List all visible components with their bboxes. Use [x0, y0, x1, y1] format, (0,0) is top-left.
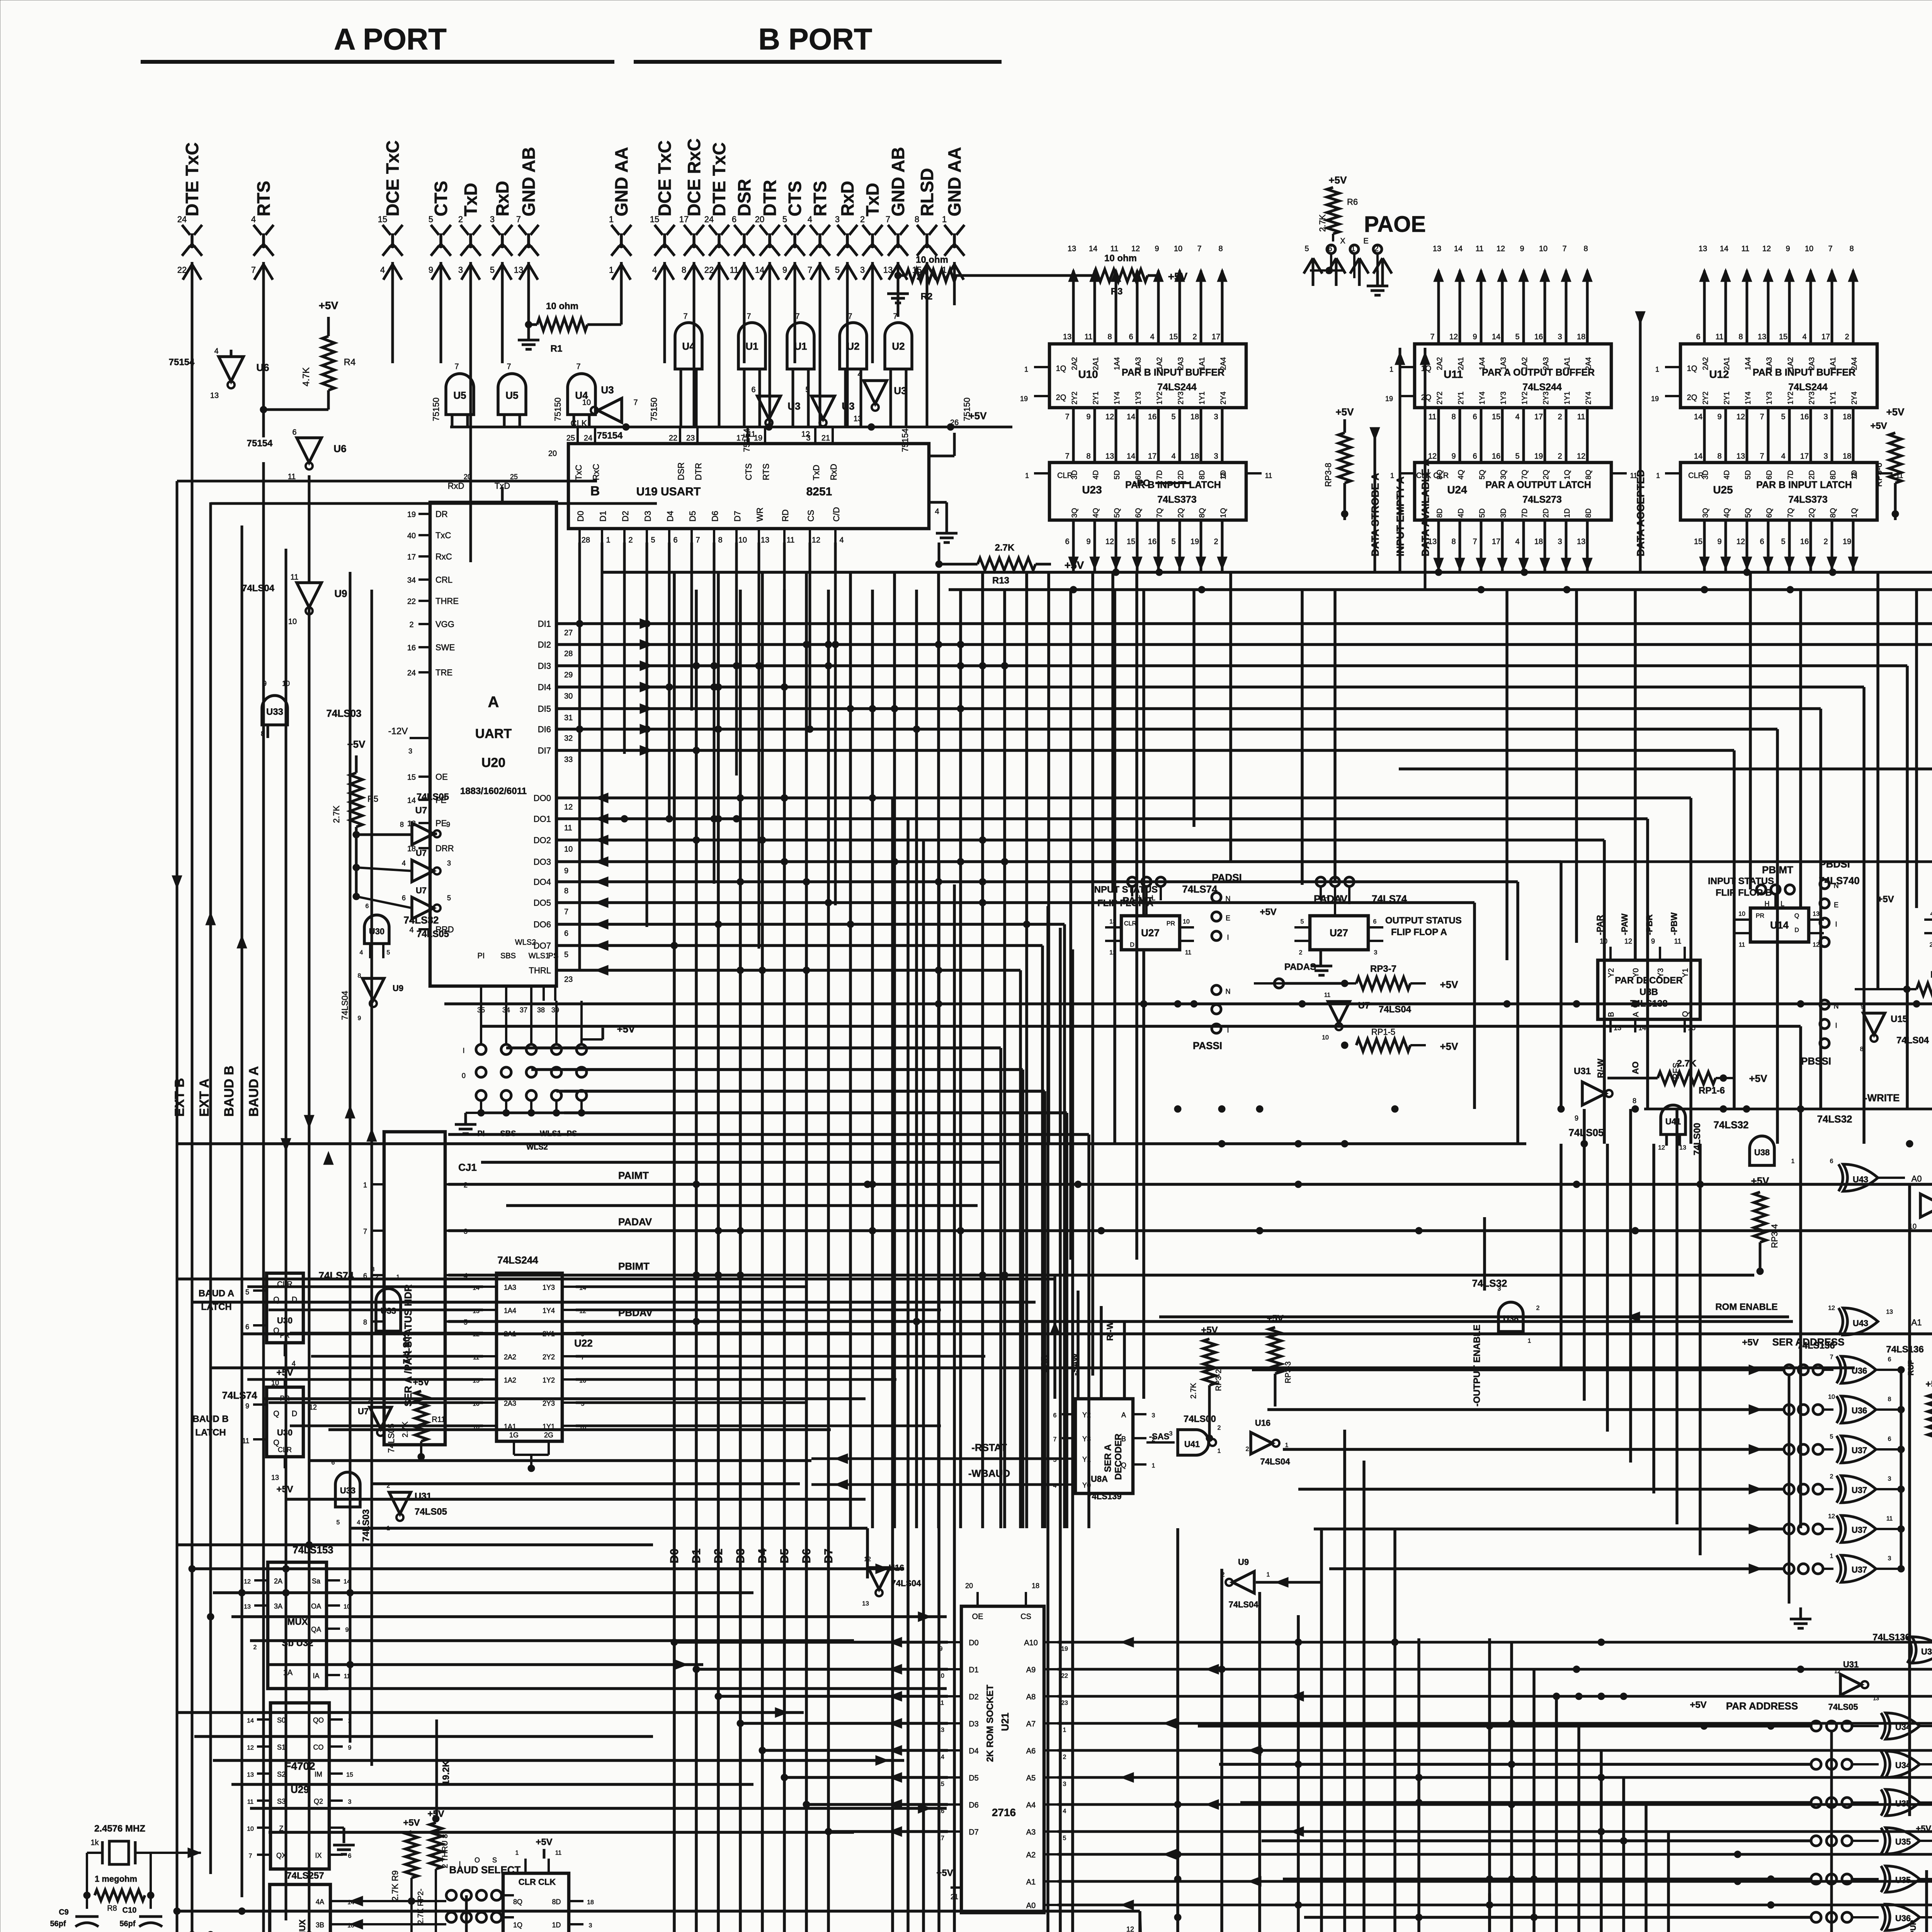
svg-text:CTS: CTS: [744, 463, 753, 480]
svg-text:13: 13: [1433, 245, 1441, 253]
svg-text:13: 13: [1758, 333, 1766, 341]
gate U2 driver: [840, 312, 867, 427]
svg-text:2.7K: 2.7K: [1677, 1058, 1697, 1069]
svg-text:H: H: [1765, 900, 1770, 908]
gate U36 74LS136 SER row1: [1784, 1394, 1905, 1423]
jumper/net PAOE: [1310, 174, 1426, 295]
inverter U6b 75154: [247, 428, 347, 481]
svg-text:U19 USART: U19 USART: [636, 485, 701, 498]
svg-text:+5V: +5V: [1886, 406, 1905, 418]
junction: [913, 1318, 920, 1325]
junction: [869, 1181, 876, 1188]
wire ser in: [1329, 1564, 1784, 1574]
wire arrow: [304, 1115, 314, 1128]
junction: [715, 726, 722, 733]
svg-text:U30: U30: [277, 1428, 293, 1437]
svg-text:11: 11: [344, 1673, 350, 1680]
resistor RP2 2.7K: [417, 1809, 449, 1932]
svg-text:8: 8: [1086, 452, 1090, 461]
svg-text:10: 10: [1183, 918, 1190, 925]
svg-text:RxD: RxD: [829, 464, 838, 480]
svg-text:74LS00: 74LS00: [1184, 1414, 1216, 1424]
connector pin CTS: [782, 181, 805, 286]
svg-text:1Y4: 1Y4: [1744, 391, 1752, 405]
junction: [1478, 586, 1485, 593]
svg-text:74LS05: 74LS05: [1828, 1702, 1858, 1712]
svg-text:A: A: [1632, 1012, 1640, 1017]
wire data row 1: [556, 639, 1932, 1144]
svg-text:-PBR: -PBR: [1645, 914, 1654, 935]
svg-text:4: 4: [292, 1360, 296, 1367]
svg-text:14: 14: [407, 796, 416, 805]
svg-text:5: 5: [490, 265, 495, 275]
net label PADAV: [618, 1216, 652, 1228]
inverter U21/U31 74LS05 (-WRITE): [1568, 1066, 1636, 1138]
svg-text:E: E: [1226, 914, 1230, 922]
svg-text:+5V: +5V: [1260, 907, 1276, 917]
wire dec vert: [1077, 1291, 1080, 1399]
svg-text:THRE: THRE: [435, 596, 459, 606]
svg-text:RTS: RTS: [810, 181, 830, 216]
gate U34top 74LS136: [1901, 1627, 1932, 1663]
junction: [1598, 1693, 1605, 1700]
svg-text:1883/1602/6011: 1883/1602/6011: [460, 786, 527, 796]
svg-text:U7: U7: [358, 1406, 369, 1416]
junction: [957, 705, 964, 712]
svg-text:3Q: 3Q: [1500, 470, 1508, 480]
svg-text:15: 15: [937, 1781, 944, 1787]
svg-text:BAUD B: BAUD B: [222, 1066, 236, 1117]
wire: [191, 383, 194, 1932]
connector stub: [1327, 245, 1345, 286]
svg-text:LATCH: LATCH: [195, 1427, 226, 1438]
wire: [391, 286, 394, 363]
svg-text:RUP: RUP: [1907, 1359, 1915, 1376]
svg-text:2A2: 2A2: [504, 1353, 516, 1361]
svg-text:11: 11: [1111, 245, 1119, 253]
svg-text:16: 16: [1800, 537, 1809, 546]
svg-text:6: 6: [1888, 1356, 1891, 1363]
svg-text:CS: CS: [1020, 1612, 1031, 1621]
svg-text:GND AA: GND AA: [611, 147, 631, 216]
svg-text:8: 8: [682, 265, 686, 275]
junction: [693, 662, 700, 669]
svg-text:8: 8: [1849, 245, 1854, 253]
svg-text:5: 5: [337, 1519, 340, 1526]
svg-text:+5V: +5V: [1201, 1325, 1218, 1335]
wire vert: [1320, 1528, 1323, 1932]
net PADAS: [1274, 962, 1345, 988]
svg-text:4: 4: [1515, 537, 1519, 546]
svg-text:4: 4: [409, 926, 413, 934]
svg-text:14: 14: [1694, 452, 1702, 461]
svg-text:CRL: CRL: [435, 575, 452, 585]
wire mid row 1: [448, 1229, 1932, 1232]
wire lowleft row 10: [231, 1783, 753, 1786]
svg-text:4: 4: [1150, 333, 1154, 341]
wire SER col: [1789, 1370, 1901, 1628]
svg-text:7: 7: [848, 312, 852, 321]
svg-text:13: 13: [1577, 537, 1585, 546]
svg-text:BAUD B: BAUD B: [192, 1414, 228, 1424]
wire vert feeder: [1575, 590, 1578, 943]
junction: [781, 794, 788, 801]
svg-text:5: 5: [1515, 333, 1519, 341]
svg-text:9: 9: [348, 1745, 352, 1751]
svg-text:1Q: 1Q: [1056, 364, 1066, 373]
svg-text:15: 15: [1169, 333, 1178, 341]
svg-text:24: 24: [704, 214, 714, 224]
svg-text:D0: D0: [668, 1549, 681, 1563]
svg-text:1: 1: [1390, 472, 1394, 480]
svg-text:ROM ENABLE: ROM ENABLE: [1715, 1302, 1777, 1312]
wire mid row 13: [328, 1428, 831, 1431]
junction: [1174, 1876, 1181, 1883]
svg-text:RxD: RxD: [492, 181, 512, 216]
svg-text:S3: S3: [277, 1798, 286, 1805]
junction: [671, 942, 678, 949]
wire ddr up: [1622, 1777, 1625, 1932]
junction: [1797, 1000, 1804, 1007]
svg-text:DO7: DO7: [534, 941, 551, 951]
junction: [238, 1908, 245, 1915]
svg-text:11: 11: [1742, 245, 1750, 253]
wire: [819, 286, 821, 427]
connector pin GND AA: [609, 147, 631, 286]
svg-text:6: 6: [1830, 1158, 1833, 1165]
wire vert: [1220, 1569, 1223, 1932]
svg-text:10: 10: [247, 1826, 254, 1832]
svg-text:7: 7: [564, 908, 568, 916]
svg-text:1A1: 1A1: [1829, 357, 1837, 370]
svg-text:10: 10: [582, 398, 591, 407]
svg-text:U37: U37: [1852, 1446, 1867, 1455]
junction: [1218, 1140, 1225, 1147]
svg-text:U2: U2: [847, 340, 859, 352]
wire vert: [1258, 1592, 1261, 1932]
wire u45 col: [1071, 949, 1074, 1932]
svg-text:2: 2: [1823, 537, 1828, 546]
junction: [1341, 1140, 1348, 1147]
svg-text:SER A: SER A: [1103, 1444, 1113, 1472]
wire ROM D conn: [715, 1691, 948, 1701]
svg-text:C/D: C/D: [832, 507, 841, 522]
wire usart col: [646, 543, 648, 927]
svg-text:1 megohm: 1 megohm: [95, 1874, 137, 1884]
svg-text:-WRITE: -WRITE: [1864, 1092, 1900, 1104]
svg-text:U7: U7: [416, 886, 427, 895]
svg-text:1: 1: [1128, 1902, 1132, 1910]
resistor RP3-6 2.7K: [1870, 406, 1905, 520]
junction: [1112, 569, 1119, 576]
svg-text:14: 14: [344, 1578, 350, 1585]
junction: [979, 837, 986, 844]
svg-text:DSR: DSR: [676, 463, 686, 480]
svg-text:5: 5: [1515, 452, 1519, 461]
wire ROM D conn: [759, 1745, 948, 1755]
svg-text:19: 19: [1843, 537, 1851, 546]
wire u45 col: [1046, 906, 1049, 1932]
svg-text:CO: CO: [313, 1743, 324, 1751]
svg-text:A0: A0: [1912, 1174, 1922, 1184]
svg-text:1A3: 1A3: [1134, 357, 1143, 370]
wire col extra: [1113, 590, 1116, 1144]
svg-text:11: 11: [1739, 942, 1745, 948]
svg-text:I: I: [1835, 920, 1837, 928]
wire fan row 5: [448, 1134, 1089, 1528]
svg-text:74LS04: 74LS04: [891, 1578, 921, 1588]
svg-text:2: 2: [253, 1644, 257, 1651]
svg-text:N: N: [1226, 988, 1231, 995]
svg-text:5Q: 5Q: [1478, 470, 1486, 480]
svg-text:U1: U1: [794, 340, 807, 352]
svg-text:U16: U16: [1255, 1418, 1270, 1428]
svg-text:-SAS: -SAS: [1149, 1432, 1170, 1441]
wire usart col: [578, 543, 581, 970]
svg-text:D1: D1: [690, 1549, 703, 1563]
svg-text:A6: A6: [1026, 1747, 1036, 1755]
svg-text:14: 14: [937, 1754, 944, 1760]
svg-text:13: 13: [210, 391, 219, 400]
svg-text:CLR: CLR: [1124, 920, 1136, 927]
pin number: [1128, 1902, 1132, 1910]
svg-text:GND AB: GND AB: [888, 147, 908, 216]
svg-text:1: 1: [396, 1274, 400, 1281]
junction: [825, 662, 832, 669]
IC U17 BAUD RATE CODE MUX 74LS257: [244, 1871, 371, 1932]
svg-text:6: 6: [363, 1272, 367, 1280]
svg-text:11: 11: [1185, 949, 1192, 956]
svg-text:U36: U36: [1852, 1366, 1867, 1376]
svg-text:2A: 2A: [274, 1577, 282, 1585]
wire ROM D conn: [781, 1772, 948, 1782]
junction: [1734, 1878, 1741, 1885]
svg-text:4: 4: [1063, 1808, 1066, 1815]
wire ser in: [1267, 1405, 1784, 1415]
connector pin DSR: [730, 179, 754, 286]
svg-text:Y2: Y2: [1607, 968, 1616, 978]
junction: [759, 967, 766, 974]
svg-text:74LS244: 74LS244: [1788, 382, 1828, 393]
IC U18 BAUD RATE LATCH 74LS273: [502, 1837, 594, 1932]
svg-text:14: 14: [1454, 245, 1463, 253]
svg-text:U6: U6: [256, 362, 269, 373]
gate U5 75150: [498, 362, 526, 427]
svg-text:13: 13: [1873, 1695, 1879, 1701]
svg-text:33: 33: [564, 755, 573, 764]
wire col extra: [1069, 590, 1072, 1260]
svg-text:D3: D3: [734, 1549, 747, 1563]
svg-text:4: 4: [839, 536, 844, 544]
svg-text:2A4: 2A4: [1850, 357, 1859, 370]
svg-text:1Y3: 1Y3: [1765, 391, 1774, 405]
svg-text:13: 13: [1068, 245, 1076, 253]
svg-text:8D: 8D: [1829, 470, 1837, 480]
svg-text:+5V: +5V: [1916, 1824, 1931, 1833]
svg-text:1: 1: [1267, 1571, 1270, 1578]
svg-text:U27: U27: [1330, 927, 1348, 939]
svg-text:A5: A5: [1026, 1774, 1036, 1782]
svg-text:2A1: 2A1: [1723, 357, 1731, 370]
75150 label: [649, 398, 972, 421]
svg-text:RP3-6: RP3-6: [1874, 463, 1884, 487]
junction: [1174, 1000, 1181, 1007]
connector stub: [1350, 245, 1369, 286]
net label PBIMT: [618, 1260, 650, 1272]
svg-text:PUP: PUP: [1909, 1920, 1918, 1932]
junction: [803, 641, 810, 648]
svg-text:8251: 8251: [806, 485, 832, 498]
junction: [1573, 1000, 1580, 1007]
svg-text:2Y3: 2Y3: [1177, 391, 1185, 405]
svg-text:U3: U3: [601, 384, 614, 396]
wire lowleft row 8: [194, 1735, 653, 1738]
junction: [957, 641, 964, 648]
svg-text:5: 5: [1301, 918, 1304, 925]
svg-text:8: 8: [915, 214, 919, 224]
svg-text:8: 8: [718, 536, 722, 544]
svg-text:12: 12: [1126, 1925, 1134, 1932]
svg-text:74LS04: 74LS04: [340, 991, 350, 1020]
svg-text:R11: R11: [432, 1415, 445, 1424]
connector stub: [1304, 245, 1322, 286]
inverter U7c 74LS05: [356, 886, 451, 939]
wire usart col: [834, 543, 837, 905]
wire usart col: [735, 543, 738, 776]
svg-text:2.7K: 2.7K: [995, 543, 1015, 553]
svg-text:DO6: DO6: [534, 920, 551, 929]
svg-text:RP3-4: RP3-4: [1770, 1224, 1779, 1248]
wire lowleft row 12: [269, 1831, 854, 1834]
wire: [209, 502, 212, 1874]
svg-text:2D: 2D: [1177, 470, 1185, 480]
wire vert feeder: [1915, 590, 1918, 908]
svg-text:1Y1: 1Y1: [1198, 391, 1206, 405]
svg-text:9: 9: [1520, 245, 1524, 253]
wire u45 col: [891, 798, 894, 1932]
svg-text:17: 17: [1821, 333, 1830, 341]
svg-text:4D: 4D: [1457, 509, 1465, 518]
svg-text:7: 7: [507, 362, 511, 371]
svg-text:MUX: MUX: [287, 1617, 308, 1627]
wire vert feeder: [1301, 590, 1304, 885]
svg-text:D7: D7: [969, 1828, 979, 1837]
svg-text:I: I: [1227, 934, 1229, 941]
IC U24 PAR A OUTPUT LATCH 74LS273: [1390, 408, 1637, 572]
svg-text:6: 6: [332, 1459, 335, 1466]
svg-text:3: 3: [348, 1799, 352, 1805]
svg-text:75150: 75150: [431, 398, 441, 421]
svg-text:74LS32: 74LS32: [1472, 1277, 1507, 1289]
junction: [282, 1589, 289, 1596]
svg-text:1Q: 1Q: [1219, 508, 1228, 518]
svg-text:1: 1: [1656, 472, 1660, 480]
svg-text:RxD: RxD: [837, 181, 857, 216]
wire vert feeder: [1749, 572, 1752, 889]
svg-text:-PBW: -PBW: [1669, 912, 1679, 935]
svg-text:8: 8: [1583, 245, 1588, 253]
net -WRITE: [1644, 1092, 1932, 1114]
svg-text:1A1: 1A1: [1198, 357, 1206, 370]
gate U34 74LS136 PAR row0: [1811, 1713, 1932, 1739]
svg-text:8Q: 8Q: [1829, 508, 1837, 518]
svg-text:10: 10: [288, 617, 297, 626]
IC U32 MUX 74LS153: [244, 1544, 350, 1689]
svg-text:U9: U9: [393, 983, 403, 993]
inverter U15b 74LS04: [1860, 1003, 1929, 1053]
svg-text:U35: U35: [1895, 1875, 1911, 1885]
svg-text:7: 7: [1828, 245, 1832, 253]
junction: [935, 967, 942, 974]
flip-flop U30 BAUD B LATCH 74LS74: [192, 1367, 317, 1495]
svg-text:74LS03: 74LS03: [326, 707, 361, 719]
svg-text:2A2: 2A2: [1071, 357, 1079, 370]
svg-text:74LS05: 74LS05: [1568, 1127, 1604, 1138]
svg-text:U34: U34: [1895, 1760, 1911, 1770]
wire data row 9: [556, 835, 1604, 1144]
junction: [207, 1931, 214, 1932]
svg-text:RP1-6: RP1-6: [1699, 1085, 1725, 1096]
svg-text:24: 24: [407, 669, 416, 677]
wire ser in: [1298, 1484, 1784, 1494]
svg-text:PS: PS: [548, 952, 559, 960]
junction: [935, 878, 942, 885]
svg-text:QO: QO: [313, 1716, 324, 1724]
wire PAR col: [1909, 1731, 1932, 1932]
svg-text:9: 9: [782, 265, 787, 275]
svg-text:4Q: 4Q: [1457, 470, 1465, 480]
wire data row 14: [556, 940, 1043, 1528]
svg-text:B: B: [1121, 1435, 1126, 1443]
svg-text:+5V: +5V: [536, 1837, 552, 1847]
wire ROM A row 6: [1058, 1799, 1932, 1810]
svg-text:1: 1: [1063, 1727, 1066, 1733]
wire ser in: [1314, 1524, 1784, 1534]
svg-text:6: 6: [751, 386, 755, 394]
svg-text:WR: WR: [755, 507, 765, 522]
junction: [715, 684, 722, 690]
svg-text:9: 9: [564, 867, 568, 875]
junction: [1508, 1876, 1515, 1883]
junction: [1508, 1720, 1515, 1727]
svg-text:1A3: 1A3: [504, 1284, 516, 1291]
junction: [238, 1589, 245, 1596]
svg-text:CLK: CLK: [571, 418, 587, 428]
junction: [1558, 1105, 1565, 1112]
wire par in: [1240, 1801, 1811, 1804]
svg-text:10: 10: [738, 536, 747, 544]
gate U5 75150: [431, 362, 474, 427]
wire data row 12: [556, 898, 1475, 1109]
svg-text:U5: U5: [453, 389, 466, 401]
svg-text:7: 7: [1053, 1436, 1057, 1443]
svg-text:6: 6: [1473, 452, 1477, 461]
svg-text:2Q: 2Q: [1177, 508, 1185, 518]
svg-text:H: H: [1324, 894, 1329, 902]
svg-text:DO4: DO4: [534, 877, 551, 887]
svg-text:13: 13: [1813, 911, 1820, 917]
svg-text:5: 5: [564, 951, 568, 959]
svg-text:PBSSI: PBSSI: [1801, 1055, 1831, 1067]
gate U1 driver: [787, 312, 814, 427]
wire lowleft row 1: [194, 1564, 904, 1574]
svg-text:D4: D4: [756, 1548, 769, 1563]
wire u45 col: [937, 863, 940, 1932]
wire mid row 7: [286, 1498, 866, 1501]
svg-text:TRE: TRE: [435, 668, 452, 677]
junction: [825, 899, 832, 906]
junction: [1295, 1901, 1302, 1908]
